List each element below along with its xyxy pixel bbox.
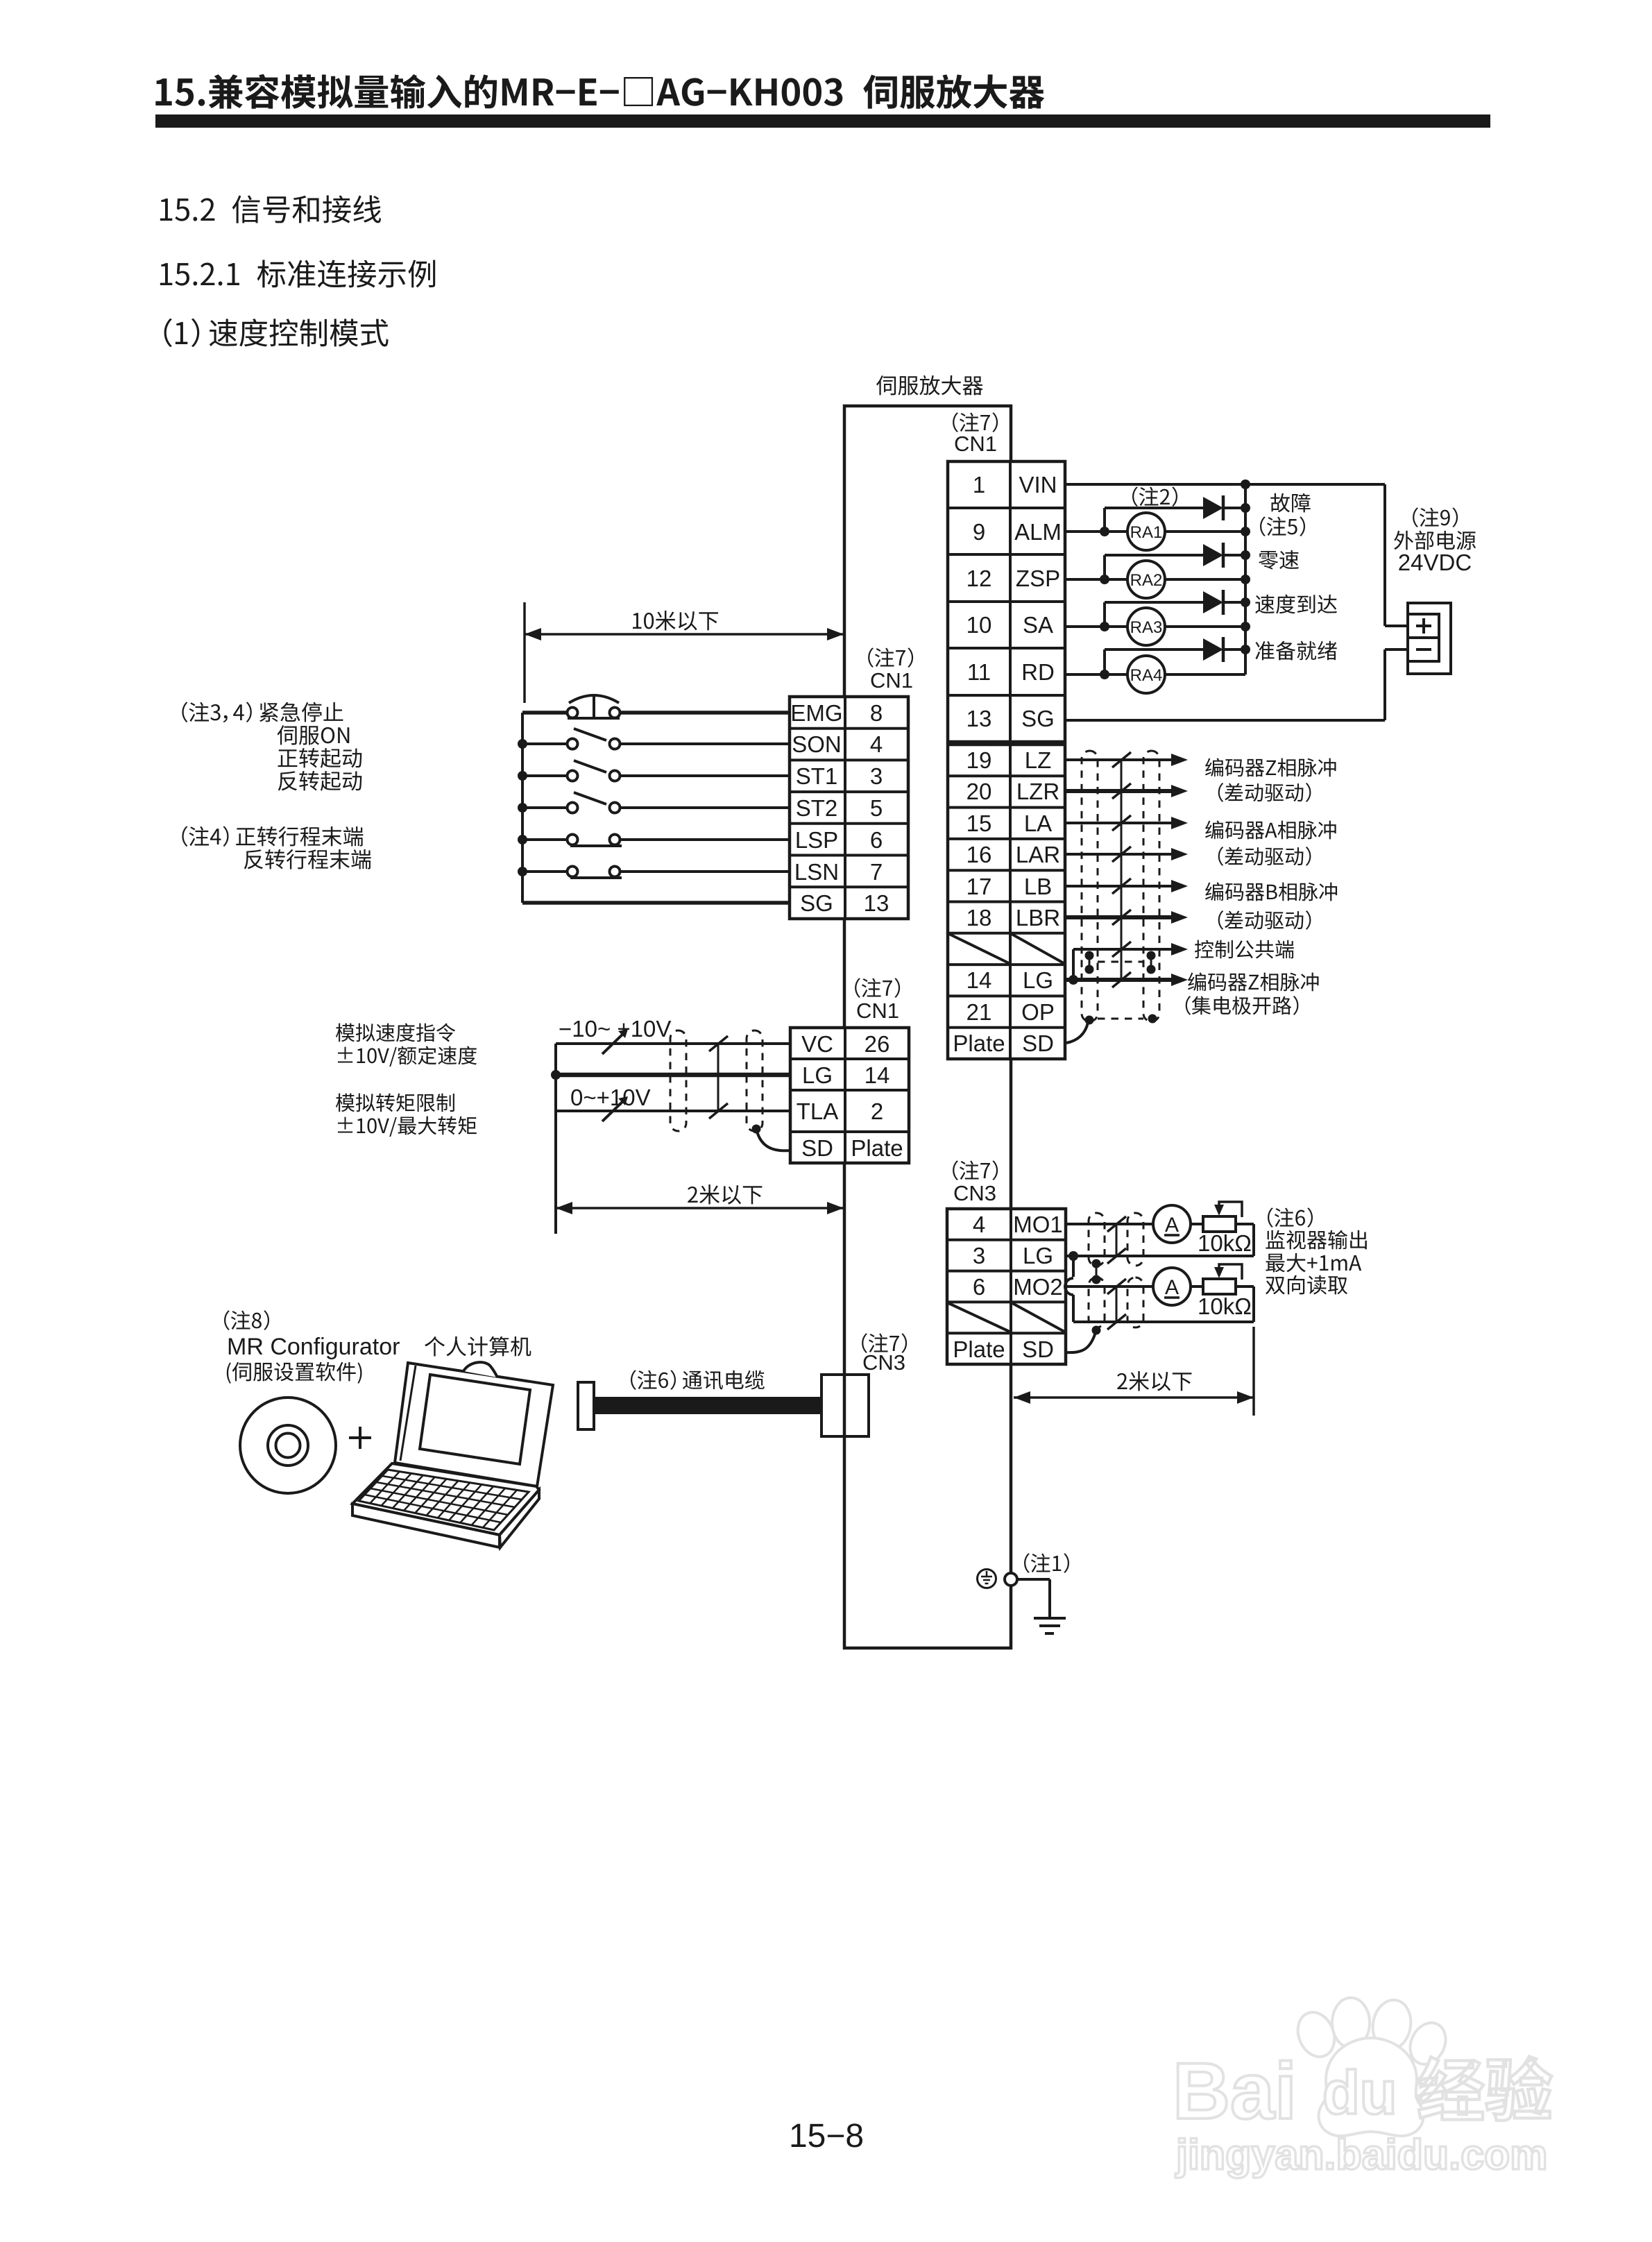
switch EMG pushbutton: [568, 708, 578, 718]
servo amplifier outline: [844, 406, 1011, 1648]
svg-text:18: 18: [966, 905, 992, 931]
svg-text:MO1: MO1: [1013, 1212, 1063, 1237]
relay coil RA3: [1127, 608, 1165, 645]
title rule bar: [155, 114, 1490, 128]
label ±10V/额定速度: [338, 1046, 477, 1067]
svg-text:EMG: EMG: [790, 700, 842, 726]
shield bond dots encoder right: [1147, 951, 1156, 960]
variable source arrow TLA: [602, 1099, 625, 1121]
label (note7) CN3: [953, 1160, 998, 1180]
junction input common y=1118: [518, 771, 527, 781]
output bus vertical: [1244, 484, 1247, 674]
junction input common y=1210: [518, 835, 527, 844]
label 个人计算机: [425, 1336, 531, 1357]
shield drain wire analog: [756, 1129, 790, 1150]
wire output RA3 row: [1065, 625, 1127, 628]
twist mark y=1095: [1112, 752, 1131, 767]
twist mark y=1186: [1112, 815, 1131, 831]
svg-text:ZSP: ZSP: [1016, 566, 1060, 591]
label encoder Z pulse: [1205, 758, 1336, 776]
label encoder A pulse: [1205, 820, 1336, 839]
twist mark y=1140: [1112, 783, 1131, 799]
potentiometer 10k 2: [1203, 1279, 1236, 1294]
svg-text:MO2: MO2: [1013, 1274, 1063, 1300]
svg-text:RA1: RA1: [1130, 523, 1163, 542]
svg-text:LA: LA: [1024, 810, 1052, 836]
svg-text:LSN: LSN: [794, 859, 839, 885]
junction bus relay RA3: [1241, 622, 1250, 631]
label 故障: [1270, 493, 1310, 513]
label 外部电源: [1394, 531, 1476, 550]
ammeter A2: [1153, 1268, 1191, 1305]
svg-text:20: 20: [966, 779, 992, 804]
cable connector left: [578, 1382, 594, 1429]
svg-text:15: 15: [966, 810, 992, 836]
svg-text:3: 3: [870, 763, 883, 789]
svg-text:8: 8: [870, 700, 883, 726]
label (note1): [1024, 1553, 1069, 1573]
connector CN3 pin table: [947, 1209, 1066, 1364]
wire EMG: [522, 711, 568, 715]
switch ST1: [568, 771, 578, 781]
svg-text:Plate: Plate: [953, 1030, 1005, 1056]
shield capsule MO1 left: [1089, 1213, 1105, 1266]
svg-text:LZ: LZ: [1025, 747, 1052, 773]
label encoder Z open collector: [1188, 972, 1318, 991]
twist mark y=1277: [1112, 878, 1131, 894]
junction RA2 branch left: [1100, 575, 1109, 584]
svg-text:LBR: LBR: [1016, 905, 1060, 931]
label (note6) 通讯电缆: [631, 1370, 765, 1390]
connector CN1 analog pin table: [790, 1028, 909, 1163]
svg-text:SA: SA: [1023, 612, 1053, 638]
communication cable: [594, 1397, 821, 1414]
wire encoder y=1231: [1065, 853, 1173, 856]
svg-text:4: 4: [973, 1212, 985, 1237]
wire output RA1 row: [1065, 530, 1127, 533]
label （注5）: [1260, 516, 1305, 536]
svg-text:VIN: VIN: [1019, 472, 1057, 498]
wire to ground: [1017, 1578, 1050, 1581]
label 速度到达: [1255, 595, 1337, 614]
twist mark y=1412: [1112, 972, 1131, 987]
CN3 unused pin cell diagonals: [948, 1303, 1010, 1332]
svg-text:SG: SG: [800, 890, 833, 916]
wire SG input: [522, 901, 790, 905]
label (note8): [224, 1310, 269, 1330]
label 差动驱动 1: [1218, 783, 1311, 802]
potentiometer 10k 1: [1203, 1216, 1236, 1232]
shield capsule MO1 right: [1127, 1213, 1143, 1266]
wire control common: [1073, 948, 1173, 951]
switch LSP: [568, 835, 578, 845]
svg-text:5: 5: [870, 795, 883, 821]
svg-text:14: 14: [865, 1062, 890, 1088]
label (note9): [1413, 507, 1458, 527]
switch SON: [568, 739, 578, 749]
dimension 2米以下 analog label: [688, 1184, 762, 1205]
svg-text:A: A: [1165, 1214, 1179, 1237]
label (note2): [1132, 486, 1177, 507]
svg-text:15−8: 15−8: [789, 2118, 864, 2155]
svg-text:12: 12: [966, 566, 992, 591]
svg-text:10kΩ: 10kΩ: [1198, 1293, 1252, 1319]
shield drain wire to SD: [1066, 1023, 1088, 1043]
svg-text:−10~ +10V: −10~ +10V: [559, 1016, 671, 1042]
input common wire vertical: [521, 713, 524, 903]
svg-text:SON: SON: [792, 731, 842, 757]
svg-text:RA3: RA3: [1130, 618, 1163, 637]
heading (1): [164, 319, 389, 347]
label (note7) CN1 top: [953, 412, 998, 432]
junction RA3 branch left: [1100, 622, 1109, 631]
label encoder B pulse: [1205, 882, 1337, 901]
twist mark TLA: [709, 1103, 728, 1119]
wire ST2: [522, 806, 568, 809]
svg-text:CN1: CN1: [870, 668, 913, 693]
svg-text:19: 19: [966, 747, 992, 773]
personal computer (laptop): [395, 1363, 553, 1486]
ground terminal: [1005, 1573, 1017, 1586]
twist mark MO1: [1107, 1216, 1126, 1232]
twist mark y=1231: [1112, 847, 1131, 862]
svg-text:LAR: LAR: [1016, 842, 1060, 867]
wire A1-pot: [1191, 1223, 1203, 1225]
wire ST1: [522, 774, 568, 777]
label ±10V/最大转矩: [338, 1116, 477, 1137]
svg-text:OP: OP: [1021, 999, 1055, 1025]
junction analog LG: [551, 1070, 561, 1080]
shield bond dots encoder left: [1085, 951, 1094, 960]
wire TLA: [556, 1110, 790, 1112]
wire SG output: [1065, 719, 1385, 722]
junction bus relay RA1: [1241, 527, 1250, 536]
svg-text:CN3: CN3: [953, 1181, 996, 1205]
svg-text:jingyan.baidu.com: jingyan.baidu.com: [1175, 2131, 1548, 2178]
power supply terminals: [1408, 614, 1439, 661]
svg-text:LG: LG: [1023, 967, 1053, 993]
analog common vertical: [554, 1044, 557, 1234]
label 监视器输出: [1266, 1230, 1366, 1250]
plus sign: [349, 1436, 371, 1439]
svg-text:du: du: [1322, 2058, 1397, 2127]
wire MO2: [1066, 1285, 1153, 1288]
junction RA1 branch left: [1100, 527, 1109, 536]
junction RA4 branch left: [1100, 670, 1109, 679]
svg-text:Plate: Plate: [851, 1135, 903, 1161]
label (note7) CN1 analog: [855, 978, 900, 998]
svg-text:26: 26: [865, 1031, 890, 1057]
svg-text:3: 3: [973, 1243, 985, 1268]
junction bus relay RA2: [1241, 575, 1250, 584]
shield link dashes encoder: [1098, 961, 1143, 963]
svg-text:SD: SD: [1022, 1336, 1054, 1362]
connector CN1 input pin table: [790, 697, 908, 919]
junction LG encoder: [1068, 975, 1078, 985]
svg-text:10kΩ: 10kΩ: [1198, 1230, 1252, 1256]
wire to +24V: [1383, 484, 1386, 626]
shield capsule MO2 right: [1127, 1277, 1143, 1327]
junction input common y=1256: [518, 867, 527, 876]
wire encoder y=1322: [1065, 915, 1173, 919]
svg-text:13: 13: [966, 706, 992, 731]
junction bus diode RA3: [1241, 597, 1250, 607]
shield drain wire CN3 to SD: [1066, 1330, 1096, 1352]
shield capsule MO2 left: [1089, 1277, 1105, 1327]
svg-text:TLA: TLA: [797, 1098, 839, 1124]
terminal - sign: [1416, 648, 1431, 651]
wire encoder y=1277: [1065, 885, 1173, 888]
svg-text:21: 21: [966, 999, 992, 1025]
twist mark y=1322: [1112, 910, 1131, 925]
diode D-RA3: [1203, 591, 1223, 613]
dimension 2米以下 CN3 label: [1117, 1371, 1191, 1391]
diode D-RA2: [1203, 544, 1223, 566]
input labels block 1: [182, 702, 343, 722]
svg-text:VC: VC: [801, 1031, 833, 1057]
label 双向读取: [1266, 1275, 1347, 1295]
twist line analog: [717, 1044, 719, 1111]
junction bus diode RA1: [1241, 503, 1250, 513]
svg-text:Plate: Plate: [953, 1336, 1005, 1362]
label 模拟速度指令: [336, 1023, 455, 1042]
svg-text:13: 13: [864, 890, 889, 916]
svg-text:6: 6: [973, 1274, 985, 1300]
diode D-RA1: [1203, 497, 1223, 519]
wire output RA2 row: [1065, 578, 1127, 581]
svg-text:10: 10: [966, 612, 992, 638]
shield capsule analog right: [747, 1030, 763, 1131]
wire LSP: [522, 838, 568, 841]
twist line encoder: [1121, 760, 1123, 980]
dimension 10米以下 label: [633, 611, 718, 631]
twist line MO2: [1116, 1286, 1118, 1322]
svg-text:CN1: CN1: [954, 432, 997, 456]
svg-text:SD: SD: [1022, 1030, 1054, 1056]
twist line MO1: [1116, 1224, 1118, 1256]
svg-text:24VDC: 24VDC: [1398, 550, 1472, 575]
shield bond dots CN3: [1092, 1259, 1101, 1268]
dimension 2m analog line: [556, 1207, 844, 1209]
wire LG stub: [1066, 1255, 1073, 1257]
wire encoder y=1186: [1065, 822, 1173, 824]
heading 15.2: [160, 195, 381, 223]
shield drain dot CN3: [1092, 1326, 1101, 1335]
label 差动驱动 3: [1218, 910, 1311, 930]
label 集电极开路: [1186, 996, 1299, 1015]
unused pin cell diagonals: [949, 934, 1009, 963]
svg-text:2: 2: [871, 1098, 883, 1124]
svg-text:LB: LB: [1024, 874, 1052, 899]
label 控制公共端: [1195, 940, 1294, 959]
switch LSN: [568, 867, 578, 877]
terminal + sign: [1416, 625, 1431, 627]
CD-ROM disc: [240, 1398, 336, 1493]
svg-text:7: 7: [870, 859, 883, 885]
label 最大+1mA: [1266, 1253, 1361, 1273]
svg-text:11: 11: [967, 659, 991, 685]
wire LG analog: [556, 1073, 790, 1078]
wire encoder y=1095: [1065, 758, 1173, 761]
svg-text:RA2: RA2: [1130, 571, 1163, 590]
relay coil RA4: [1127, 656, 1165, 693]
label 模拟转矩限制: [336, 1094, 454, 1112]
wire SON: [522, 742, 568, 745]
svg-text:1: 1: [973, 472, 985, 498]
input labels block 2: [182, 826, 363, 846]
svg-text:RD: RD: [1021, 659, 1055, 685]
svg-text:ST2: ST2: [796, 795, 838, 821]
connector CN1 pin table rows 19-Plate: [948, 745, 1065, 1059]
wire VIN: [1065, 483, 1385, 486]
svg-text:LZR: LZR: [1016, 779, 1059, 804]
shield drain dot encoder: [1085, 1016, 1094, 1025]
svg-text:Bai: Bai: [1173, 2047, 1297, 2136]
junction bus diode RA2: [1241, 550, 1250, 560]
label 差动驱动 2: [1218, 847, 1311, 866]
svg-text:ALM: ALM: [1014, 519, 1062, 545]
svg-text:MR Configurator: MR Configurator: [227, 1334, 400, 1360]
svg-text:LG: LG: [1023, 1243, 1053, 1268]
relay coil RA1: [1127, 513, 1165, 550]
dimension 10m line: [525, 633, 844, 636]
svg-text:CN1: CN1: [856, 999, 899, 1023]
svg-text:ST1: ST1: [796, 763, 838, 789]
wire A2-pot: [1191, 1285, 1203, 1288]
shield drain dot analog: [752, 1125, 761, 1134]
junction VIN bus: [1241, 479, 1250, 489]
dimension 2m CN3 line: [1014, 1396, 1254, 1399]
svg-text:16: 16: [966, 842, 992, 867]
svg-text:4: 4: [870, 731, 883, 757]
twist mark y=1368: [1112, 942, 1131, 957]
label 伺服设置软件: [227, 1362, 362, 1384]
svg-text:LSP: LSP: [795, 827, 838, 853]
label 零速: [1259, 550, 1299, 570]
heading 15.2.1: [160, 260, 435, 287]
wire MO1: [1066, 1223, 1153, 1225]
wire output RA4 row: [1065, 673, 1127, 676]
power supply 24VDC box: [1408, 603, 1451, 674]
PE symbol: [978, 1570, 996, 1588]
junction input common y=1072: [518, 739, 527, 749]
shield capsule analog left: [670, 1030, 686, 1131]
shield capsule encoder left: [1082, 751, 1098, 1021]
ammeter A1: [1153, 1205, 1191, 1243]
wire encoder y=1140: [1065, 789, 1173, 793]
junction bus diode RA4: [1241, 645, 1250, 654]
twist mark VC: [709, 1036, 728, 1051]
wire VC: [556, 1042, 790, 1045]
wire MO2 return: [1236, 1285, 1254, 1288]
svg-text:9: 9: [973, 519, 985, 545]
svg-text:SG: SG: [1021, 706, 1055, 731]
wire LG encoder out: [1065, 978, 1173, 982]
label 准备就绪: [1255, 641, 1336, 661]
svg-text:LG: LG: [802, 1062, 833, 1088]
svg-text:6: 6: [870, 827, 883, 853]
svg-text:SD: SD: [801, 1135, 833, 1161]
shield capsule encoder right: [1143, 751, 1159, 1021]
wire LSN: [522, 870, 568, 873]
diode D-RA4: [1203, 638, 1223, 661]
svg-text:CN3: CN3: [862, 1350, 905, 1375]
wire MO1 return: [1236, 1223, 1254, 1225]
connector CN1 pin table rows 1-13: [948, 461, 1065, 742]
twist mark MO2: [1107, 1279, 1126, 1294]
label (note7) CN1 left: [868, 647, 913, 668]
svg-text:14: 14: [966, 967, 992, 993]
watermark 经验: [1418, 2057, 1552, 2121]
relay coil RA2: [1127, 561, 1165, 598]
cable connector CN3: [821, 1375, 869, 1436]
svg-text:0~+10V: 0~+10V: [570, 1085, 651, 1110]
wire to -24V: [1383, 649, 1386, 720]
junction input common y=1164: [518, 803, 527, 813]
svg-text:RA4: RA4: [1130, 666, 1163, 685]
junction CN3 LG: [1068, 1251, 1078, 1261]
svg-text:A: A: [1165, 1276, 1179, 1299]
label (note6) monitor: [1268, 1207, 1313, 1228]
wire LG drop with hop: [1072, 1256, 1075, 1277]
page title: [155, 74, 1044, 109]
watermark baidu paw: [1291, 1997, 1452, 2136]
ground symbol: [1034, 1617, 1066, 1620]
svg-text:17: 17: [966, 874, 992, 899]
servo amplifier label 伺服放大器: [876, 375, 983, 396]
label (note7) CN3 at cable: [862, 1333, 907, 1353]
switch ST2: [568, 803, 578, 813]
variable source arrow VC: [602, 1032, 625, 1054]
